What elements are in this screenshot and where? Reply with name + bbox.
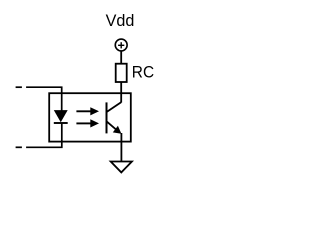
svg-text:RC: RC	[132, 63, 154, 82]
svg-text:Vdd: Vdd	[106, 11, 135, 30]
